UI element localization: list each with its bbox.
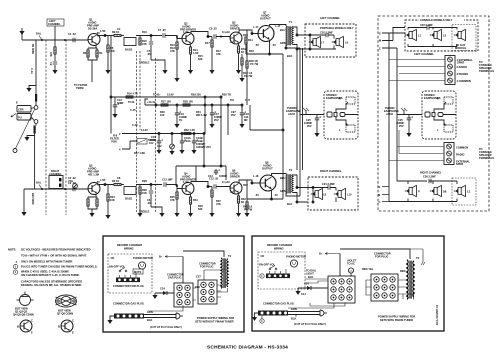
svg-text:Q4-Q5-Q6-CONN: Q4-Q5-Q6-CONN (13, 313, 34, 317)
svg-text:4 COMMON: 4 COMMON (457, 79, 471, 83)
svg-text:OUTPUT: OUTPUT (262, 167, 273, 171)
svg-text:POWER SUPPLY WIRING FOR: POWER SUPPLY WIRING FOR (378, 315, 415, 319)
svg-text:3 PHONO: 3 PHONO (457, 72, 469, 76)
ground G10 (112, 114, 117, 118)
svg-text:14.3V: 14.3V (141, 128, 148, 132)
svg-text:10K: 10K (110, 198, 115, 202)
svg-text:25V: 25V (231, 113, 236, 117)
svg-text:12.6V: 12.6V (167, 93, 174, 97)
ground G26 (188, 213, 193, 217)
svg-text:Q7-Q8 CONN: Q7-Q8 CONN (57, 312, 73, 316)
wire Q1 collector (97, 35, 114, 37)
svg-text:PC 7W: PC 7W (250, 62, 259, 66)
resistor R32 (184, 128, 195, 135)
motor phono 1 (133, 256, 153, 269)
note text (8, 248, 98, 288)
svg-text:C8: C8 (117, 176, 121, 180)
svg-text:CONNECTOR GAS PLUG: CONNECTOR GAS PLUG (113, 302, 144, 306)
wire jack feed portable (300, 108, 324, 116)
phono plug top (34, 106, 38, 110)
svg-text:C-45: C-45 (132, 123, 138, 127)
box CD dashed 1 (108, 254, 152, 293)
svg-text:C20 2.2MF: C20 2.2MF (320, 31, 333, 35)
svg-text:BLU: BLU (280, 28, 285, 32)
wire T1 secondary (293, 27, 305, 50)
wire rail B (136, 184, 162, 186)
AC plug 1 (176, 313, 183, 319)
svg-text:C: C (31, 319, 33, 323)
svg-text:C, P: C, P (245, 98, 250, 102)
ground G16 (179, 150, 184, 154)
note circled 1 box2b (260, 316, 264, 324)
svg-text:1.5K: 1.5K (100, 178, 106, 182)
svg-text:C19A: C19A (184, 136, 191, 140)
svg-text:GRN: GRN (280, 189, 286, 193)
wire left stub pins (119, 132, 137, 152)
resistor R27 (161, 100, 171, 107)
note circled 1 box2 (260, 274, 264, 278)
node BAL wiper (36, 32, 43, 41)
svg-text:C26 2.2MF: C26 2.2MF (423, 175, 436, 179)
wire Q8 emitter (247, 130, 283, 200)
label R8 filter (110, 134, 119, 144)
svg-text:R42: R42 (243, 183, 248, 187)
wire mid rail2 (145, 99, 243, 106)
svg-text:LEFT CHANNEL: LEFT CHANNEL (320, 16, 340, 20)
capacitor C25 portable (304, 116, 321, 133)
svg-text:.05: .05 (147, 52, 151, 56)
wire rail A (136, 35, 162, 37)
box stereo earphones console (422, 91, 456, 139)
wire speaker rails R (308, 187, 336, 204)
resistor R3 R4 emitter Q1 (83, 45, 103, 83)
svg-text:BLK: BLK (147, 318, 152, 322)
svg-text:TO B-: TO B- (128, 100, 135, 104)
transformer T3b (340, 249, 425, 300)
svg-text:R: R (437, 97, 439, 101)
connector bar bottom 2 (258, 311, 288, 316)
resistor R12B (176, 189, 178, 214)
svg-text:7000: 7000 (111, 140, 117, 144)
svg-text:RED-YEL: RED-YEL (362, 267, 374, 271)
svg-text:R1 500K: R1 500K (31, 44, 35, 54)
transistor Q7 (258, 11, 281, 42)
svg-text:CAPACITORS UNLESS OTHERWISE SP: CAPACITORS UNLESS OTHERWISE SPECIFIED (21, 280, 82, 284)
wires socket to transformer 1 (204, 258, 224, 297)
capacitor C26 (423, 175, 436, 184)
label connector for plug 2 (374, 252, 391, 259)
svg-text:TO AC: TO AC (347, 262, 355, 266)
label R1 500K vertical (31, 44, 35, 205)
ground G21 (105, 215, 110, 219)
svg-text:10V: 10V (157, 144, 162, 148)
svg-text:.5V: .5V (272, 43, 276, 47)
node BAL wiper R (36, 181, 43, 190)
box stereo earphones portable (324, 91, 358, 139)
value labels scatter mid (128, 93, 250, 150)
label stereo earphones portable (326, 93, 343, 100)
label connector for plug 1b (196, 262, 216, 279)
svg-text:R17: R17 (205, 41, 210, 45)
block thermistor (134, 139, 147, 156)
transformer T2 (280, 168, 293, 194)
ground G29 (244, 213, 249, 217)
dashed separator 4 (139, 51, 141, 130)
svg-text:C: C (379, 47, 381, 51)
svg-text:C24: C24 (160, 287, 165, 291)
speaker SP1 (309, 36, 325, 47)
svg-text:BLU: BLU (280, 176, 285, 180)
capacitor C21 (322, 182, 335, 190)
svg-text:B+: B+ (319, 252, 323, 256)
wire console speaker rails R (389, 164, 457, 202)
svg-text:620: 620 (198, 207, 203, 211)
svg-text:RECORD CHANGER: RECORD CHANGER (117, 243, 142, 247)
speaker CR1 (405, 185, 420, 196)
capacitor C14 (208, 169, 227, 178)
capacitor C19A (180, 134, 191, 151)
title record changer 1 (117, 243, 142, 251)
svg-text:C19B: C19B (196, 136, 203, 140)
speaker CS1 (405, 29, 422, 40)
svg-text:LEFT CHANNEL: LEFT CHANNEL (414, 52, 434, 56)
svg-text:MODULE: MODULE (455, 46, 467, 50)
ground G2 (105, 70, 110, 74)
wire console speaker rails L (408, 28, 457, 47)
capacitor C18 (240, 105, 250, 124)
svg-text:B: B (58, 325, 60, 329)
label to dial light (306, 269, 317, 276)
svg-text:RIGHT CHANNEL: RIGHT CHANNEL (420, 171, 442, 175)
pot thermal (170, 134, 175, 152)
note circled 2 (13, 270, 17, 274)
ground G6 (209, 70, 214, 74)
wire Q7 collector to T1 (270, 25, 287, 27)
console pin labels bottom (378, 185, 389, 204)
svg-text:M: M (378, 193, 380, 197)
dashed separator 1 (45, 40, 47, 215)
svg-text:25V: 25V (307, 124, 312, 128)
svg-text:BAL: BAL (36, 32, 42, 36)
svg-text:R3: R3 (83, 51, 87, 55)
transistor Q2 (87, 164, 100, 195)
svg-text:TO B+: TO B+ (153, 93, 161, 97)
switch lever arm (13, 109, 35, 153)
svg-text:M: M (379, 39, 381, 43)
resistor R9 (112, 30, 124, 37)
capacitor C2 (68, 181, 76, 191)
svg-text:CONSOLE MODELS ONLY: CONSOLE MODELS ONLY (420, 18, 453, 22)
value labels scatter top chain (96, 25, 259, 61)
svg-text:R29 220: R29 220 (191, 93, 201, 97)
svg-text:.6V: .6V (96, 31, 100, 35)
connector plug bar 1 (113, 273, 144, 288)
transformer T3a (183, 251, 232, 292)
AC plug 2 (320, 310, 327, 316)
ground G30 (152, 295, 157, 299)
svg-text:BLK: BLK (291, 317, 296, 321)
ground G19 (24, 137, 29, 141)
svg-text:BLK: BLK (287, 54, 292, 58)
transistor symbol legend 1 (17, 319, 33, 335)
svg-text:C24: C24 (304, 282, 309, 286)
svg-text:47K: 47K (216, 202, 221, 206)
svg-text:MF: MF (244, 118, 248, 122)
svg-text:R20 TO: R20 TO (222, 93, 231, 97)
ground G32 (295, 291, 300, 295)
cartridge body (11, 101, 31, 121)
ground G27 (209, 213, 214, 217)
ground G17 (191, 150, 196, 154)
svg-text:CD: CD (261, 254, 265, 258)
svg-text:11 µ10: 11 µ10 (222, 30, 230, 34)
wire mid verticals (176, 97, 284, 186)
svg-text:POWER SUPPLY WIRING FOR: POWER SUPPLY WIRING FOR (197, 316, 234, 320)
svg-text:47K: 47K (170, 49, 175, 53)
resistor R45 (243, 199, 253, 213)
wire Q2 collector (97, 184, 114, 186)
ground G33 (252, 313, 258, 321)
wire B+ left rail (110, 36, 222, 134)
svg-text:FOR PLUG: FOR PLUG (375, 255, 388, 259)
speaker CR2 (430, 185, 447, 196)
switch on-off-vol 1 (109, 265, 127, 272)
svg-text:BASS: BASS (125, 48, 132, 52)
wires socket4 to T3b (366, 280, 407, 299)
wire T1 primary bottom (285, 45, 300, 49)
capacitor C15 (150, 134, 163, 151)
capacitor C12 (209, 177, 231, 189)
svg-text:L-17: L-17 (253, 25, 259, 29)
svg-text:R26: R26 (142, 179, 147, 183)
transistor Q8 (260, 161, 276, 192)
svg-text:OUTPUT: OUTPUT (260, 17, 271, 21)
svg-text:DC VOLTAGES - MEASURED FROM PO: DC VOLTAGES - MEASURED FROM POINT INDICA… (21, 248, 91, 252)
svg-text:R31: R31 (193, 198, 198, 202)
resistor R16 (126, 92, 138, 99)
svg-text:R67 1.8K: R67 1.8K (134, 151, 145, 155)
svg-text:S: S (379, 185, 381, 189)
ground G9 (406, 133, 411, 137)
svg-text:48Z 1.3M: 48Z 1.3M (88, 173, 99, 177)
svg-text:25V: 25V (214, 118, 219, 122)
svg-text:1.3V: 1.3V (230, 40, 236, 44)
svg-text:1000MF 25V: 1000MF 25V (196, 145, 211, 149)
svg-text:SPKR: SPKR (456, 162, 463, 166)
svg-text:C: C (72, 319, 74, 323)
transistor symbol legend 2 (58, 319, 74, 335)
svg-text:R28 100: R28 100 (183, 100, 193, 104)
transistor bottom view power (56, 295, 77, 316)
socket S3 (328, 276, 355, 303)
dashed separator 5 (155, 58, 157, 212)
svg-text:SPKR: SPKR (457, 60, 464, 64)
svg-text:C-1A: C-1A (30, 68, 34, 74)
capacitor C1 (68, 32, 76, 42)
svg-text:DECIMAL VALUES IN MF, ALL OTHE: DECIMAL VALUES IN MF, ALL OTHERS IN MMF. (21, 283, 82, 287)
svg-text:(CUT AT 50 CYCLE ONLY): (CUT AT 50 CYCLE ONLY) (294, 322, 326, 326)
resistor R14 emitter Q3 (189, 44, 198, 71)
box console models only (405, 20, 478, 51)
ground G25 (174, 213, 179, 217)
svg-text:TO B+ WITH A VTVM + OR WITH NO: TO B+ WITH A VTVM + OR WITH NO SIGNAL IN… (21, 254, 87, 258)
svg-text:NOTE:: NOTE: (8, 248, 16, 252)
dashed separator 2 (65, 40, 67, 215)
wire Q3 collector to Q5 (191, 32, 212, 38)
title record changer 2 (267, 243, 292, 251)
svg-text:C7 .05: C7 .05 (158, 28, 166, 32)
svg-text:.05: .05 (147, 201, 151, 205)
svg-text:E: E (72, 331, 74, 335)
svg-text:▲: ▲ (15, 261, 18, 264)
svg-text:CHANNEL: CHANNEL (48, 22, 61, 26)
svg-text:B+: B+ (159, 255, 163, 259)
wire console input stubs (379, 28, 405, 202)
jack internals console (425, 97, 456, 132)
connector bar bottom 1 (114, 314, 144, 319)
speaker CS2 (430, 29, 447, 40)
svg-text:R43: R43 (249, 49, 254, 53)
wire Q8 collector to T2 (272, 174, 287, 176)
svg-text:LIGHT: LIGHT (306, 272, 314, 276)
wire gnd stub (21, 28, 23, 40)
speaker SP2 (332, 36, 349, 47)
svg-text:FOR PLUG: FOR PLUG (200, 265, 213, 269)
svg-text:CONNECTOR FOR PLUG: CONNECTOR FOR PLUG (113, 284, 144, 288)
label power supply wiring 2 (378, 315, 415, 323)
svg-text:C1 .02: C1 .02 (68, 32, 76, 36)
svg-text:ON-OFF-VOL: ON-OFF-VOL (109, 265, 126, 269)
ground G20 (21, 212, 26, 216)
dial light (347, 259, 357, 277)
ground G23 (137, 213, 142, 217)
resistor R10B (139, 185, 147, 214)
resistor R43 (241, 54, 243, 78)
label connector sar plug (167, 273, 184, 280)
ground G22 (89, 213, 94, 217)
ground G8 (239, 78, 244, 82)
wire shield ground (27, 136, 35, 138)
svg-text:C2: C2 (49, 62, 53, 66)
motor phono 2 (286, 255, 306, 268)
resistor R6 (107, 36, 115, 71)
svg-text:47K: 47K (170, 198, 175, 202)
resistor R19B emitter Q6 (237, 193, 246, 213)
wire shield verticals (35, 40, 36, 189)
transistor Q3 (180, 22, 196, 45)
svg-text:SCHEMATIC DIAGRAM - HS-3334: SCHEMATIC DIAGRAM - HS-3334 (207, 345, 288, 351)
wire bias vertical (282, 54, 284, 130)
svg-text:WD 1.3M: WD 1.3M (196, 113, 207, 117)
box LF aux module bottom (452, 178, 476, 205)
svg-text:6V: 6V (179, 118, 182, 122)
block BASS L (124, 38, 136, 52)
svg-text:E: E (16, 101, 18, 105)
svg-text:BAL: BAL (36, 181, 42, 185)
ground G5 (188, 70, 193, 74)
label to filter term (74, 83, 87, 90)
resistor R10 (139, 36, 147, 47)
wire long verticals to lower (297, 48, 303, 172)
svg-text:.5V: .5V (255, 43, 259, 47)
svg-text:DS-26A: DS-26A (88, 27, 97, 31)
svg-text:.5V: .5V (274, 193, 278, 197)
svg-text:L10: L10 (347, 193, 352, 197)
svg-text:TERMINALS: TERMINALS (479, 156, 494, 160)
svg-text:PHONO MOTOR: PHONO MOTOR (286, 255, 306, 259)
svg-text:GRN: GRN (280, 41, 286, 45)
svg-text:PHONO MOTOR: PHONO MOTOR (133, 256, 153, 260)
svg-text:DRIVER: DRIVER (230, 27, 240, 31)
svg-text:JACK: JACK (288, 112, 295, 116)
capacitor C25 console (396, 116, 413, 133)
capacitor C7 (158, 28, 182, 39)
label phono earphone jack console (384, 106, 399, 116)
svg-text:47K: 47K (216, 52, 221, 56)
svg-text:TERM: TERM (76, 86, 83, 90)
ground G3 (162, 70, 167, 74)
svg-text:PC 7W: PC 7W (244, 208, 253, 212)
resistor R2 chain (49, 40, 57, 70)
ground G28 (236, 213, 241, 217)
label to console speaker terminals top (479, 60, 494, 73)
box console outer (378, 16, 489, 211)
svg-text:CONNECTOR GAS PLUG: CONNECTOR GAS PLUG (263, 302, 294, 306)
ground G24 (159, 213, 164, 217)
svg-text:R27 100: R27 100 (161, 100, 171, 104)
svg-text:R: R (339, 97, 341, 101)
speaker CS3 (454, 29, 467, 49)
svg-text:C2 .02: C2 .02 (68, 181, 76, 185)
wire mid rail3 (137, 133, 205, 135)
phono plug bottom (34, 120, 38, 124)
label console models only (419, 18, 464, 23)
resistor R3B R4B emitter Q2 (87, 194, 98, 214)
svg-text:R32 1.2K: R32 1.2K (184, 128, 195, 132)
ground G31 (107, 316, 114, 324)
box record changer 2 (252, 236, 444, 331)
wire Q6 collector to Q8 (239, 180, 260, 199)
wire T2 secondary (286, 172, 308, 203)
jack internals portable (327, 97, 358, 132)
svg-text:MUTE: MUTE (134, 270, 142, 274)
svg-text:SETS WITH FM/AM TUNER: SETS WITH FM/AM TUNER (380, 318, 413, 322)
svg-text:R41: R41 (248, 38, 253, 42)
box CD dashed 2 (258, 252, 305, 289)
resistor R6B (107, 185, 115, 216)
svg-text:C14: C14 (301, 292, 306, 296)
svg-text:WIRING: WIRING (274, 247, 284, 251)
svg-text:R23 500K: R23 500K (31, 193, 35, 205)
svg-text:TREBLE: TREBLE (139, 210, 150, 214)
label LEFT CHANNEL (47, 19, 66, 41)
box record changer 1 (103, 236, 244, 332)
box portable models only R (308, 177, 358, 210)
svg-text:SAR PLUG: SAR PLUG (168, 276, 181, 280)
connector plug bar 2 (266, 269, 290, 278)
svg-text:WIRING: WIRING (124, 247, 134, 251)
value labels output (249, 43, 292, 206)
switch on-off-vol 2 (259, 263, 277, 270)
svg-text:RIGHT CHANNEL: RIGHT CHANNEL (320, 169, 342, 173)
svg-text:47K: 47K (49, 52, 53, 57)
svg-text:R10: R10 (142, 30, 147, 34)
svg-text:BLK: BLK (287, 202, 292, 206)
svg-text:15K: 15K (142, 191, 147, 195)
box portable models only L (305, 24, 356, 57)
svg-text:PC 7W: PC 7W (244, 74, 253, 78)
svg-text:620: 620 (198, 57, 203, 61)
